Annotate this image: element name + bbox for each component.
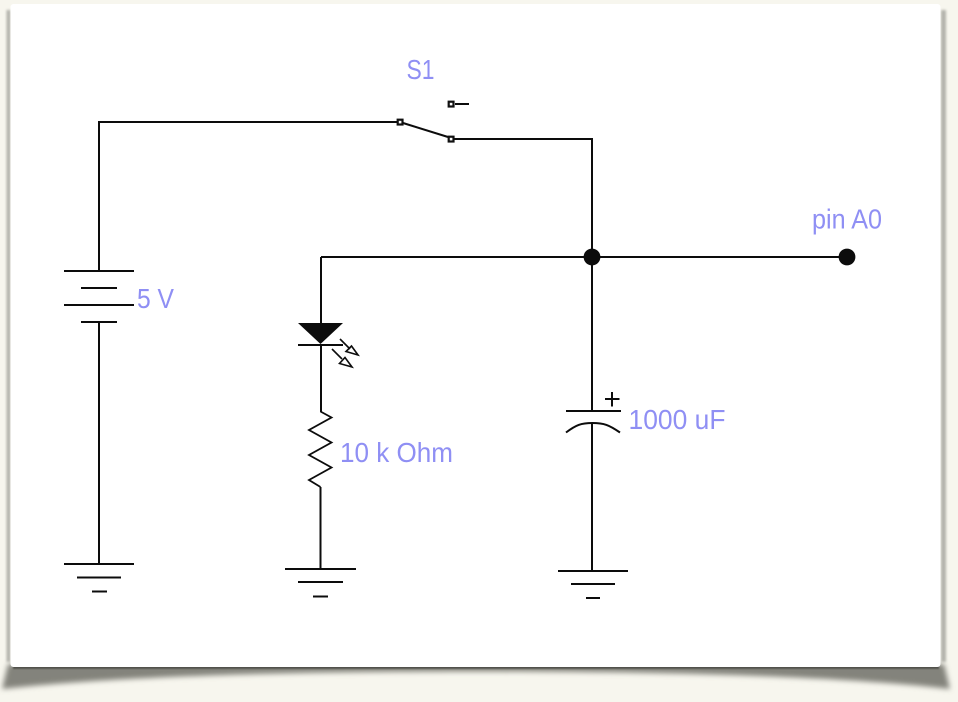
wire resistor to ground: [320, 487, 322, 569]
wire battery top to switch: [99, 122, 397, 271]
pin A0 node: [839, 249, 856, 266]
switch S1 upper contact stub: [455, 103, 469, 105]
capacitor C1 top plate: [566, 410, 621, 412]
wire junction to capacitor: [591, 257, 593, 411]
resistor R1 zigzag: [309, 412, 332, 488]
switch S1 left terminal: [398, 120, 403, 125]
switch S1 lever: [403, 123, 448, 137]
LED D1 light arrow 2: [332, 349, 352, 367]
card bottom shadow (curved wings): [2, 664, 950, 689]
svg-text:10 k Ohm: 10 k Ohm: [340, 437, 453, 468]
LED D1 triangle: [298, 323, 343, 344]
switch S1 upper contact: [449, 102, 454, 107]
wire capacitor to ground: [591, 423, 593, 571]
wire main horizontal node: [321, 256, 847, 258]
svg-text:S1: S1: [407, 54, 435, 85]
wire LED branch top: [320, 257, 322, 323]
svg-text:1000 uF: 1000 uF: [629, 404, 726, 435]
svg-text:5 V: 5 V: [137, 283, 174, 314]
junction node: [584, 249, 601, 266]
wire LED to resistor: [320, 345, 322, 412]
svg-text:pin A0: pin A0: [812, 204, 882, 235]
capacitor C1 plus sign: [605, 392, 620, 407]
ground GND2 (resistor): [285, 569, 356, 597]
card bottom edge dark line: [13, 666, 939, 669]
switch S1 lower contact: [449, 137, 454, 142]
card right edge shadow: [941, 10, 946, 662]
ground GND3 (capacitor): [558, 571, 628, 598]
wire switch output to junction column: [454, 139, 592, 257]
LED D1 light arrow 1: [340, 339, 358, 355]
wire battery bottom to ground: [98, 322, 100, 564]
ground GND1 (battery): [64, 564, 134, 592]
LED D1 cathode bar: [298, 344, 343, 346]
card left edge shadow: [7, 10, 11, 662]
battery B1 5V: [64, 271, 134, 322]
capacitor C1 curved plate: [566, 423, 620, 433]
